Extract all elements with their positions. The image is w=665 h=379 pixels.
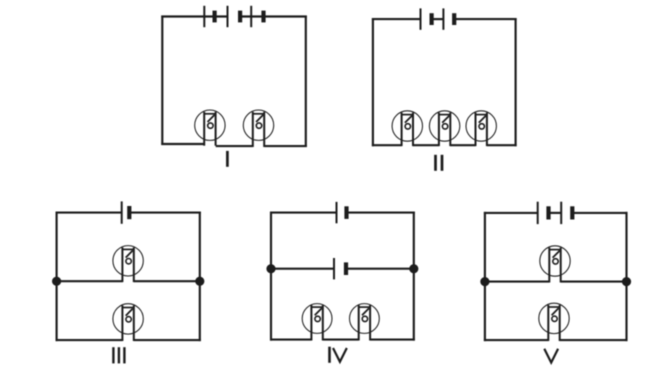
circuit III left wire bbox=[56, 212, 58, 342]
battery B3 cell1 long plate bbox=[420, 8, 422, 29]
battery B2b short plate bbox=[261, 11, 265, 23]
node N3 bbox=[266, 264, 275, 273]
label V bbox=[544, 349, 558, 363]
lamp L5 bbox=[466, 111, 496, 146]
lamp L2 bbox=[243, 110, 273, 147]
battery B4 long plate bbox=[121, 201, 123, 223]
circuit IV middle-right wire bbox=[346, 268, 414, 270]
circuit III top-left wire bbox=[56, 212, 122, 214]
circuit I bottom-mid wire bbox=[216, 145, 253, 147]
circuit IV middle-left wire bbox=[271, 268, 334, 270]
battery B3 cell2 short plate bbox=[452, 13, 456, 25]
circuit V middle-right wire bbox=[561, 281, 627, 283]
battery B6 short plate bbox=[344, 262, 348, 275]
label II bbox=[434, 155, 443, 171]
lamp L3 bbox=[392, 111, 422, 146]
battery B7 cell1 short plate bbox=[546, 206, 550, 219]
circuit IV bottom wire a bbox=[270, 339, 311, 341]
circuit II right wire bbox=[515, 18, 517, 146]
circuit I top-right wire bbox=[240, 15, 307, 17]
battery B7 cell1 long plate bbox=[537, 202, 539, 224]
circuit III middle-right wire bbox=[134, 280, 200, 282]
circuit III right wire bbox=[199, 212, 201, 342]
battery B4 short plate bbox=[127, 206, 131, 219]
node N1 bbox=[52, 277, 61, 286]
battery B1 short plate bbox=[213, 11, 217, 23]
label I bbox=[226, 151, 229, 167]
circuit II bottom wire a bbox=[372, 144, 402, 146]
lamp L6 bbox=[113, 246, 143, 283]
circuit III bottom-right wire bbox=[134, 339, 201, 341]
circuit II left wire bbox=[372, 18, 374, 146]
lamp L1 bbox=[195, 110, 225, 146]
battery B5 short plate bbox=[344, 206, 348, 219]
circuit V middle-left wire bbox=[485, 281, 549, 283]
battery B7 cell2 long plate bbox=[560, 202, 562, 224]
circuit III bottom-left wire bbox=[56, 339, 123, 341]
circuit IV right wire bbox=[413, 212, 415, 341]
battery B6 long plate bbox=[333, 258, 335, 279]
circuit III top-right wire bbox=[129, 212, 201, 214]
circuit II bottom wire c bbox=[450, 144, 475, 146]
battery B2 long plate bbox=[250, 6, 252, 27]
circuit IV top-right wire bbox=[347, 212, 415, 214]
circuit I bottom-left wire bbox=[161, 143, 204, 145]
lamp L8 bbox=[302, 304, 332, 341]
circuit I bottom-right wire bbox=[264, 145, 307, 147]
lamp L4 bbox=[429, 111, 459, 146]
battery B5 long plate bbox=[336, 202, 338, 223]
circuit II top-mid wire bbox=[432, 18, 444, 20]
lamp L11 bbox=[539, 303, 569, 341]
label III bbox=[112, 347, 125, 363]
circuit I right wire bbox=[305, 16, 307, 148]
circuit V top-left wire bbox=[484, 212, 538, 214]
battery B2 short plate bbox=[238, 11, 242, 23]
label IV bbox=[328, 347, 347, 363]
node N5 bbox=[480, 277, 489, 286]
circuit IV bottom wire b bbox=[323, 339, 359, 341]
node N6 bbox=[622, 277, 631, 286]
battery B1 long plate bbox=[203, 6, 205, 27]
battery B1b long plate bbox=[227, 6, 229, 27]
circuit V top-mid wire bbox=[549, 212, 562, 214]
circuit II top-left wire bbox=[372, 18, 421, 20]
circuit V top-right wire bbox=[572, 212, 627, 214]
circuit IV bottom wire c bbox=[370, 339, 415, 341]
battery B3 cell1 short plate bbox=[430, 13, 434, 25]
lamp L7 bbox=[113, 304, 143, 341]
circuit II bottom wire d bbox=[487, 144, 517, 146]
circuit V bottom-left wire bbox=[484, 339, 548, 341]
circuit I left wire bbox=[161, 16, 163, 145]
lamp L9 bbox=[350, 304, 380, 341]
battery B7 cell2 short plate bbox=[570, 206, 574, 219]
circuit IV left wire bbox=[270, 212, 272, 341]
node N4 bbox=[409, 264, 418, 273]
circuit V right wire bbox=[625, 212, 627, 341]
node N2 bbox=[195, 277, 204, 286]
battery B3 cell2 long plate bbox=[442, 8, 444, 29]
circuit V left wire bbox=[484, 212, 486, 341]
circuit IV top-left wire bbox=[270, 212, 337, 214]
circuit V bottom-right wire bbox=[560, 339, 628, 341]
circuit I top-left wire bbox=[161, 15, 227, 17]
circuit II bottom wire b bbox=[413, 144, 439, 146]
lamp L10 bbox=[540, 246, 570, 283]
circuit II top-right wire bbox=[454, 18, 516, 20]
circuit III middle-left wire bbox=[57, 280, 123, 282]
